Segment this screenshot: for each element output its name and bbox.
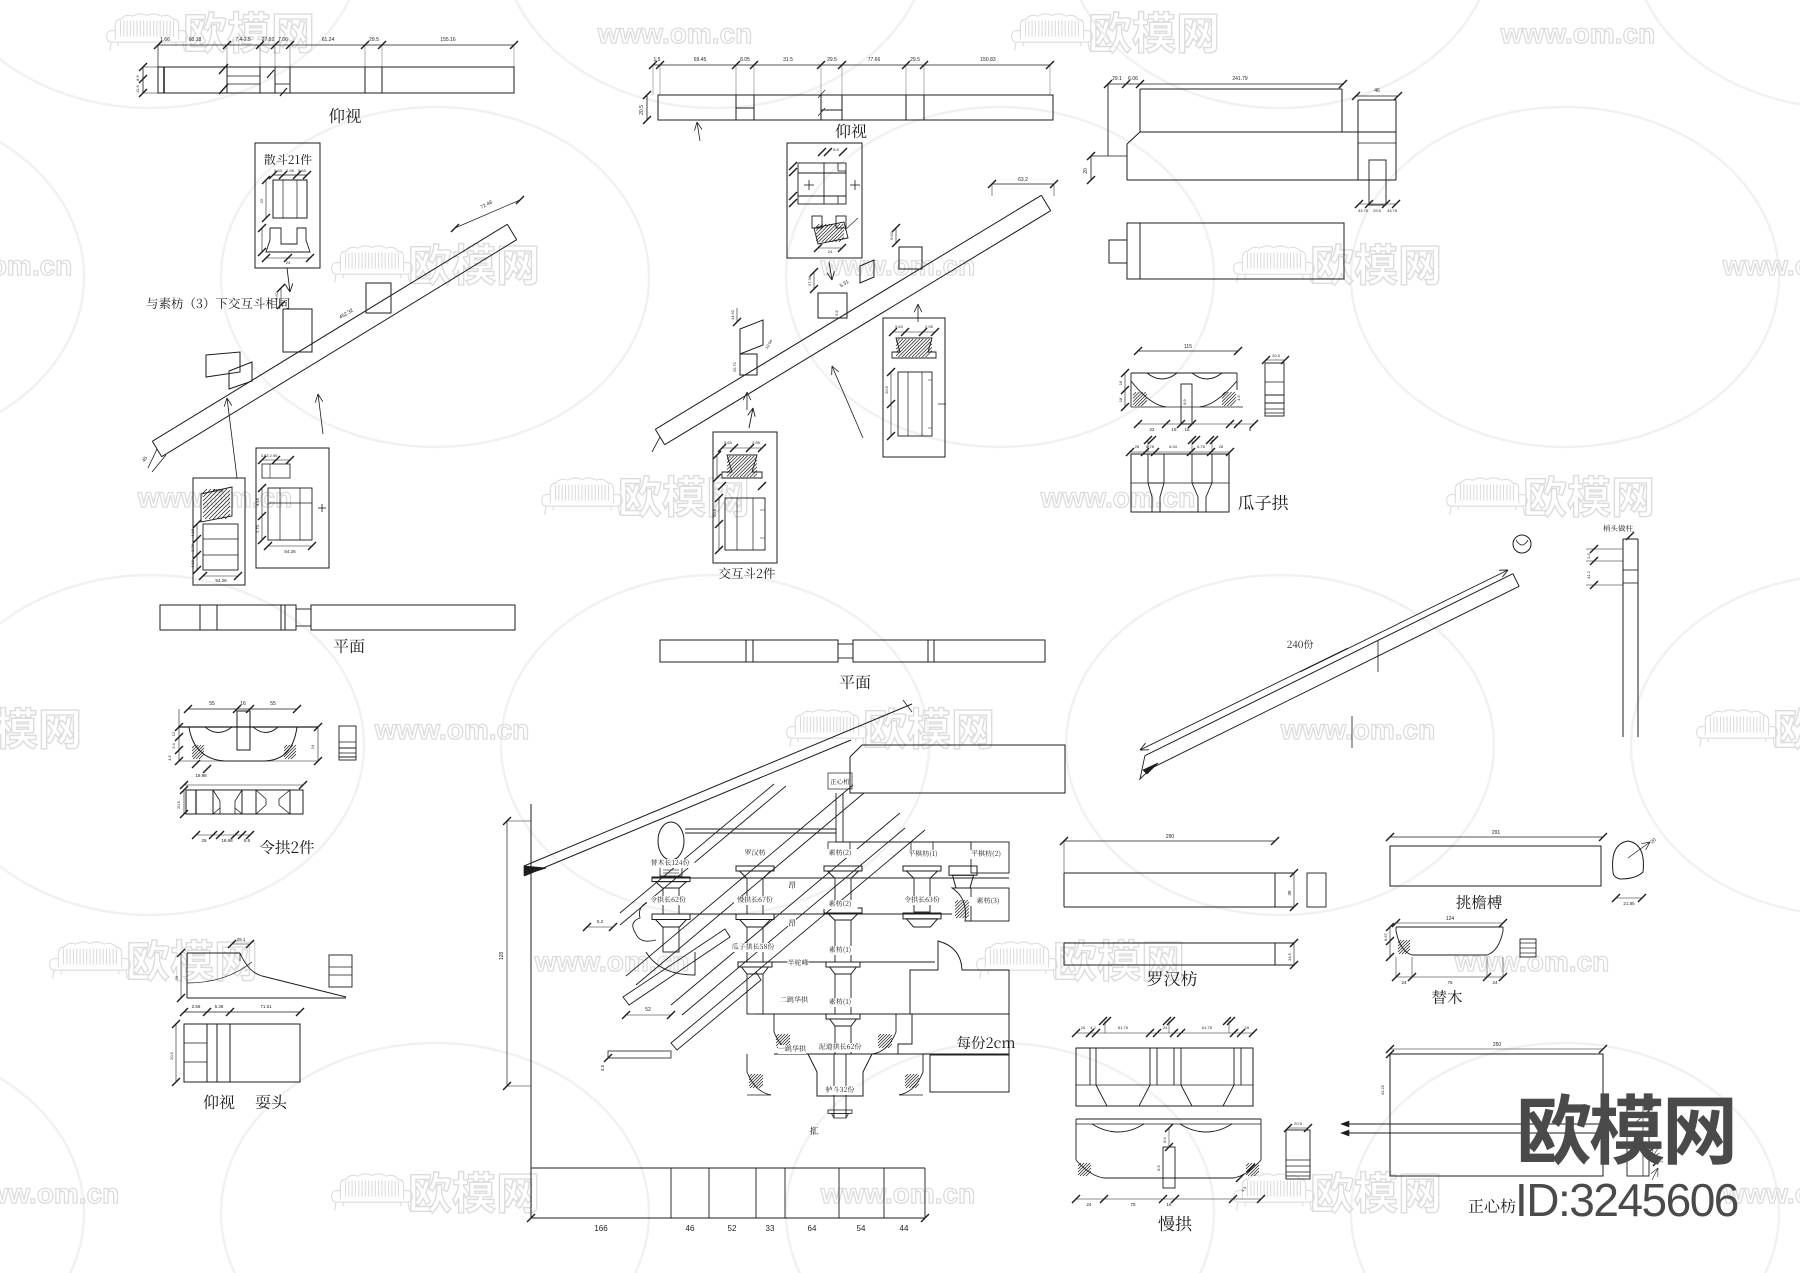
svg-text:55: 55 [270,701,276,707]
svg-text:6.06: 6.06 [1128,76,1138,82]
svg-text:6.78: 6.78 [1146,444,1155,449]
svg-text:29.5: 29.5 [369,37,379,43]
svg-text:20: 20 [1083,168,1089,174]
svg-text:24: 24 [310,744,315,749]
svg-text:29.5: 29.5 [1373,208,1382,213]
svg-text:16: 16 [1118,380,1123,385]
svg-text:20.5: 20.5 [639,105,645,115]
svg-text:2.70: 2.70 [255,524,260,533]
svg-text:24: 24 [1401,980,1407,985]
svg-text:www.om.cn: www.om.cn [820,250,976,281]
svg-text:8.67: 8.67 [1383,932,1388,941]
svg-text:61.75: 61.75 [1202,1025,1213,1030]
svg-text:41.2: 41.2 [1586,570,1591,579]
svg-text:34.5: 34.5 [1287,952,1292,961]
svg-text:5.5: 5.5 [834,309,839,315]
svg-text:www.om.cn: www.om.cn [1454,946,1610,977]
svg-text:24: 24 [828,249,833,254]
svg-text:43.75: 43.75 [1387,208,1398,213]
svg-text:61.75: 61.75 [1118,1025,1129,1030]
svg-text:43.75: 43.75 [1358,208,1369,213]
svg-text:54.26: 54.26 [215,578,227,583]
svg-text:2.76: 2.76 [190,543,195,552]
svg-text:46: 46 [1374,88,1380,94]
svg-text:5.63: 5.63 [298,168,307,173]
svg-text:291: 291 [1492,830,1501,836]
svg-text:3.4: 3.4 [171,742,176,748]
svg-text:16: 16 [1081,1025,1086,1030]
svg-text:7.06: 7.06 [278,37,288,43]
svg-text:28: 28 [1135,444,1140,449]
svg-text:20.5: 20.5 [1294,1121,1303,1126]
svg-text:20.5: 20.5 [884,385,889,394]
svg-text:19: 19 [1171,427,1177,432]
svg-text:54: 54 [857,1224,866,1233]
svg-text:18: 18 [1118,397,1123,402]
svg-text:155.16: 155.16 [440,37,456,43]
svg-text:2.95: 2.95 [925,324,934,329]
svg-text:2.95: 2.95 [286,168,295,173]
svg-text:ID:3245606: ID:3245606 [1515,1174,1738,1226]
svg-text:124: 124 [1446,916,1455,922]
svg-text:44: 44 [900,1224,909,1233]
svg-text:16: 16 [1166,1202,1172,1207]
svg-text:www.om.cn: www.om.cn [0,250,72,281]
svg-text:4.18: 4.18 [190,559,195,568]
svg-text:24: 24 [1086,1202,1092,1207]
svg-text:29.5: 29.5 [827,57,837,63]
svg-text:20.5: 20.5 [712,508,717,517]
svg-text:3.63 2.95: 3.63 2.95 [261,453,278,458]
svg-text:46: 46 [686,1224,695,1233]
svg-text:2.56: 2.56 [192,1004,201,1009]
svg-text:4.5: 4.5 [167,754,172,760]
svg-text:www.om.cn: www.om.cn [597,18,753,49]
svg-text:21.85: 21.85 [1623,901,1635,906]
svg-text:16: 16 [1245,1025,1250,1030]
svg-text:22: 22 [259,198,264,203]
svg-text:166: 166 [594,1224,608,1233]
svg-text:2.95: 2.95 [752,440,761,445]
svg-text:31.5: 31.5 [783,57,793,63]
svg-text:1.66: 1.66 [160,37,170,43]
svg-text:54.26: 54.26 [284,549,296,554]
svg-text:241.79: 241.79 [1232,76,1248,82]
svg-text:7.4-2.5: 7.4-2.5 [235,37,251,43]
svg-text:55: 55 [209,701,215,707]
svg-text:8.9: 8.9 [1156,1164,1161,1170]
svg-text:250: 250 [1493,1042,1502,1048]
svg-text:24: 24 [1492,980,1498,985]
svg-text:www.om.cn: www.om.cn [1040,482,1196,513]
svg-text:www.om.cn: www.om.cn [1722,250,1800,281]
svg-text:41.25: 41.25 [1380,1084,1385,1095]
svg-text:29.5: 29.5 [910,57,920,63]
svg-text:52: 52 [728,1224,737,1233]
svg-text:25.71: 25.71 [732,361,737,372]
svg-text:5.63: 5.63 [274,168,283,173]
svg-text:2.4: 2.4 [1586,552,1591,558]
svg-text:www.om.cn: www.om.cn [1500,18,1656,49]
svg-text:www.om.cn: www.om.cn [534,946,690,977]
svg-text:14.92: 14.92 [730,309,735,320]
svg-text:www.om.cn: www.om.cn [374,714,530,745]
svg-text:29: 29 [201,838,207,843]
svg-text:20.5: 20.5 [176,800,181,809]
svg-text:11.6: 11.6 [135,84,140,92]
svg-text:28: 28 [1219,444,1224,449]
svg-text:29: 29 [174,975,179,980]
svg-text:8.5: 8.5 [833,147,839,152]
svg-text:33: 33 [766,1224,775,1233]
svg-text:71.61: 71.61 [260,1004,272,1009]
svg-text:75: 75 [1130,1202,1136,1207]
svg-text:www.om.cn: www.om.cn [1280,714,1436,745]
svg-text:6.34: 6.34 [1169,444,1178,449]
svg-text:29.1: 29.1 [1112,76,1122,82]
svg-text:29.1: 29.1 [237,937,246,942]
svg-text:www.om.cn: www.om.cn [0,1178,119,1209]
svg-text:20.5: 20.5 [1272,353,1281,358]
svg-text:4.5: 4.5 [600,1064,605,1071]
svg-text:38: 38 [1287,890,1292,896]
svg-text:4.18: 4.18 [190,528,195,537]
svg-text:61.24: 61.24 [322,37,335,43]
svg-text:8.9: 8.9 [1162,1136,1167,1142]
svg-text:www.om.cn: www.om.cn [820,1178,976,1209]
svg-text:6.78: 6.78 [1197,444,1206,449]
svg-text:8.9: 8.9 [135,74,140,80]
svg-text:22: 22 [1149,427,1155,432]
svg-text:12: 12 [171,731,176,736]
svg-text:6.8: 6.8 [244,838,251,843]
svg-text:76: 76 [1447,980,1453,985]
svg-text:5.38: 5.38 [215,1004,224,1009]
svg-text:16: 16 [240,701,246,707]
svg-text:69.45: 69.45 [694,57,707,63]
svg-text:9.62: 9.62 [274,291,279,300]
svg-text:18.98: 18.98 [221,838,233,843]
svg-text:60.18: 60.18 [189,37,202,43]
svg-text:16: 16 [1184,427,1190,432]
svg-text:150.83: 150.83 [980,57,996,63]
svg-text:115: 115 [1184,344,1192,350]
svg-text:8.9: 8.9 [1182,398,1187,404]
svg-text:1.5: 1.5 [654,57,661,63]
svg-text:24: 24 [1163,1025,1168,1030]
svg-text:18.98: 18.98 [195,773,207,778]
svg-text:52: 52 [645,1007,651,1013]
svg-text:9.62: 9.62 [889,231,894,240]
svg-text:290: 290 [1166,834,1175,840]
svg-text:77.66: 77.66 [868,57,881,63]
svg-text:4.2: 4.2 [1090,1025,1096,1030]
svg-text:5.63: 5.63 [895,324,904,329]
svg-text:64: 64 [808,1224,817,1233]
svg-text:8.05: 8.05 [740,57,750,63]
svg-text:27.38: 27.38 [807,275,812,286]
svg-text:4.5: 4.5 [1236,394,1241,400]
svg-text:27.92: 27.92 [262,37,275,43]
svg-text:4.18: 4.18 [255,497,260,506]
svg-text:24: 24 [286,260,291,265]
svg-text:63.2: 63.2 [1018,177,1028,183]
svg-text:20.5: 20.5 [169,1051,174,1060]
svg-text:128: 128 [499,952,505,961]
svg-text:5.2: 5.2 [597,919,604,924]
svg-text:5.63: 5.63 [724,440,733,445]
